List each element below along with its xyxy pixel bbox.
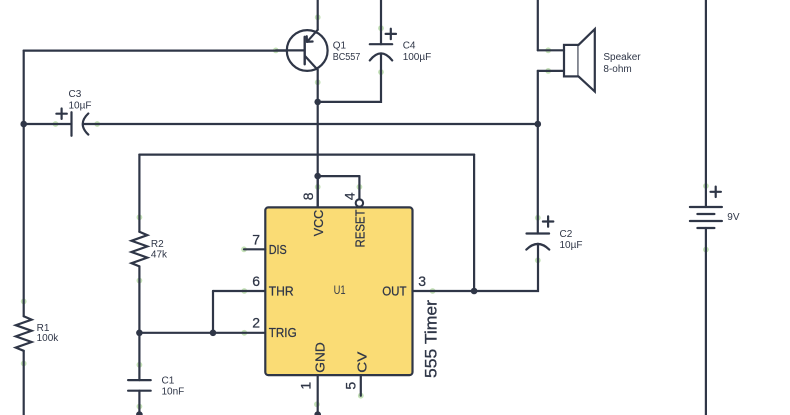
port marker C4 top [378,25,384,31]
svg-text:R2: R2 [151,239,164,250]
port marker R1 bottom [21,361,27,367]
wire C3 right lead (to speaker node) [83,123,538,125]
resistor R2 [132,232,148,267]
svg-text:C2: C2 [560,229,573,240]
port marker C1 top [137,362,143,368]
svg-text:1: 1 [297,382,313,390]
pin 7 DIS stub [244,248,265,250]
port marker C2 top [535,215,541,221]
svg-text:100k: 100k [37,333,60,344]
port marker C1 bottom [137,404,143,410]
wire TRIG row [139,332,265,334]
wire THR-TRIG vertical [212,291,214,333]
svg-text:10µF: 10µF [560,240,583,251]
junction dot left rail / C3 [20,121,27,128]
pin 8 VCC stub [317,176,319,207]
port marker Q1 emitter [315,14,321,20]
capacitor C1 [128,380,151,391]
svg-text:10µF: 10µF [69,101,92,112]
svg-text:555 Timer: 555 Timer [423,299,441,378]
svg-text:2: 2 [252,315,260,331]
port marker speaker - [545,68,551,74]
speaker SP1 [538,29,595,91]
port marker U1 pin 3 OUT [430,288,436,294]
svg-text:RESET: RESET [352,209,367,247]
wire R2 bottom to TRIG node [138,266,140,332]
svg-text:U1: U1 [334,285,346,297]
capacitor C4 [370,0,396,60]
port marker U1 pin 8 VCC [315,184,321,190]
junction dot VCC node [314,173,321,180]
port marker R2 bottom [137,278,143,284]
port marker speaker + [545,47,551,53]
junction dot collector/C4 [314,99,321,106]
wire mid rail right leg to OUT [473,155,475,291]
svg-text:TRIG: TRIG [269,325,297,340]
junction dot speaker/C3/C2 node [535,121,542,128]
reset inversion bubble [356,199,363,206]
wire left rail vertical [23,51,25,317]
svg-text:BC557: BC557 [333,52,361,63]
svg-text:C1: C1 [162,375,175,386]
port marker U1 pin 6 THR [241,288,247,294]
svg-text:9V: 9V [727,212,740,223]
junction dot bottom edge C1 [136,411,143,415]
wire C3 left lead [24,123,72,125]
svg-text:3: 3 [418,273,426,289]
wire speaker bottom terminal down [537,71,539,124]
capacitor C3 [56,109,88,136]
port marker Q1 base [273,48,279,54]
wire Q1 emitter to top edge [317,0,319,30]
wire below R1 [23,351,25,415]
wire VCC-RESET link [318,175,360,177]
junction dot bottom edge GND [314,411,321,415]
wire mid rail (OUT feedback) [139,154,474,156]
svg-text:DIS: DIS [269,242,287,257]
pin 4 RESET stub [358,176,360,200]
pin 5 CV stub [360,375,362,396]
wire C4 bottom to collector junction [318,54,381,102]
pin 1 GND stub [317,375,319,415]
port marker C3 right [94,121,100,127]
wire mid rail left leg [138,155,140,232]
svg-text:10nF: 10nF [162,387,185,398]
svg-text:OUT: OUT [382,284,406,299]
svg-text:VCC: VCC [311,210,326,237]
port marker R1 top [21,299,27,305]
svg-text:Speaker: Speaker [603,52,641,63]
wire C1 top lead [138,333,140,380]
junction dot R2/TRIG/C1 [136,330,143,337]
junction dot THR/TRIG [210,330,217,337]
pin 3 OUT wire to C2 [413,244,539,291]
svg-text:GND: GND [312,342,327,373]
svg-text:8-ohm: 8-ohm [603,64,631,75]
capacitor C2 [526,124,553,250]
port marker U1 pin 2 TRIG [241,330,247,336]
wire left rail top [24,49,287,51]
port marker U1 pin 4 RESET [357,184,363,190]
port marker U1 pin 7 DIS [241,246,247,252]
port marker U1 pin 1 GND [314,401,320,407]
wire C1 bottom lead [138,391,140,415]
transistor Q1 [276,30,328,71]
wire speaker top terminal to top edge [537,0,539,50]
svg-text:100µF: 100µF [403,52,432,63]
port marker U1 pin 5 CV [358,393,364,399]
svg-text:CV: CV [355,351,370,372]
port marker battery + [703,183,709,189]
svg-text:C4: C4 [403,41,416,52]
svg-text:THR: THR [269,284,294,299]
port marker R2 top [137,214,143,220]
svg-text:47k: 47k [151,250,168,261]
resistor R1 [16,316,32,351]
svg-text:8: 8 [300,192,316,200]
battery V1 [690,0,722,415]
svg-text:C3: C3 [69,89,82,100]
wire THR branch [213,290,265,292]
port marker battery - [703,247,709,253]
svg-text:6: 6 [252,273,260,289]
port marker C2 bottom [535,257,541,263]
svg-text:Q1: Q1 [333,41,347,52]
svg-text:5: 5 [343,382,359,390]
junction dot OUT node [471,288,478,295]
port marker C4 bottom [378,69,384,75]
svg-text:4: 4 [342,192,358,200]
port marker C3 left [53,121,59,127]
wire Q1 collector down to VCC pin [317,70,319,208]
svg-text:7: 7 [252,231,260,247]
port marker Q1 collector [315,79,321,85]
555 timer U1 body [265,207,412,375]
